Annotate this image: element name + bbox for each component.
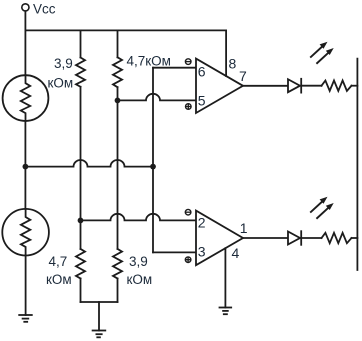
wire rail down to resistor 3,9 kOhm branch — [80, 30, 82, 57]
U1 non-inverting input marker (plus) — [186, 104, 192, 110]
resistor R7 (top right, horizontal) — [322, 81, 352, 91]
wire R1 bottom to node A junction — [24, 121, 26, 167]
wire node A to photoresistor R2 — [24, 167, 26, 209]
LED D1 — [288, 79, 301, 93]
wire node A bus to op-amp U1 (with hops over branches) — [25, 160, 153, 167]
op-amp U1 — [196, 59, 243, 113]
wire ground bus stub down — [98, 302, 100, 331]
wire R5 bottom to ground bus — [80, 279, 82, 303]
ground (below U2 pin 4) — [220, 308, 232, 315]
wire node B bus to op-amp U2 pin 2 (with hops) — [81, 214, 197, 221]
svg-text:6: 6 — [198, 63, 206, 79]
right vertical bus wire — [356, 59, 358, 270]
wire vertical net to op-amp U2 pin 3 — [153, 251, 196, 253]
wire vertical net pin6/pin3 — [152, 68, 154, 253]
photoresistor R2 — [2, 209, 49, 256]
wire node B to resistor R5 — [80, 220, 82, 249]
wire U1 output pin 7 to LED D1 — [243, 85, 288, 87]
wire R4 bottom to node C junction — [117, 87, 119, 100]
resistor R5 4,7 kOhm (bottom left) — [76, 249, 85, 279]
wire top supply rail — [25, 29, 226, 31]
svg-text:1: 1 — [240, 220, 248, 236]
wire R2 bottom to ground — [25, 256, 27, 316]
svg-text:кОм: кОм — [127, 272, 153, 287]
svg-text:Vcc: Vcc — [33, 1, 56, 16]
wire LED D1 to resistor R7 — [301, 85, 321, 87]
node B junction dot — [78, 218, 84, 224]
LED D1 emission arrows — [311, 42, 334, 63]
node A junction dot (divider midpoint) — [23, 164, 29, 170]
resistor R8 (bottom right, horizontal) — [322, 233, 352, 243]
wire R8 to right bus — [352, 237, 358, 239]
wire rail down to resistor 4,7 kOhm branch — [117, 30, 119, 57]
op-amp U2 — [196, 211, 243, 266]
resistor R4 4,7 kOhm (top middle) — [113, 57, 122, 87]
node D junction dot (bus meets vertical to pin 6) — [150, 164, 156, 170]
svg-text:3: 3 — [198, 243, 206, 259]
svg-text:3,9: 3,9 — [54, 56, 73, 71]
wire Vcc terminal to top rail — [24, 11, 26, 30]
terminal Vcc — [22, 4, 29, 11]
resistor R3 3,9 kOhm (top left) — [76, 58, 85, 87]
svg-text:4,7кОм: 4,7кОм — [127, 54, 171, 69]
LED D2 emission arrows — [311, 197, 334, 218]
node C junction dot — [115, 98, 121, 104]
wire R7 to right bus — [352, 85, 358, 87]
photoresistor R1 — [3, 75, 49, 121]
wire U2 pin 4 to ground — [224, 248, 226, 307]
wire node C down to resistor R6 — [117, 100, 119, 249]
svg-text:5: 5 — [198, 93, 206, 109]
U2 inverting input marker (minus) — [185, 209, 191, 215]
svg-text:7: 7 — [239, 68, 247, 84]
svg-text:4,7: 4,7 — [49, 254, 68, 269]
svg-text:кОм: кОм — [46, 272, 72, 287]
U2 non-inverting input marker (plus) — [185, 257, 191, 263]
resistor R6 3,9 kOhm (bottom middle) — [113, 249, 122, 279]
wire rail down to photoresistor R1 — [24, 30, 26, 75]
svg-text:4: 4 — [232, 245, 240, 261]
svg-text:2: 2 — [198, 214, 206, 230]
wire R6 bottom to ground bus — [117, 279, 119, 303]
wire Vcc rail to U1 pin 8 — [225, 30, 227, 76]
svg-text:кОм: кОм — [48, 76, 74, 91]
LED D2 — [288, 231, 301, 245]
wire bottom ground bus — [81, 301, 118, 303]
svg-text:3,9: 3,9 — [129, 254, 148, 269]
wire node C to op-amp U1 pin 5 (hop over vertical) — [118, 94, 197, 101]
ground (left, below R2) — [19, 315, 32, 322]
wire to op-amp U1 pin 6 — [153, 67, 196, 69]
wire R3 bottom to node B junction — [80, 87, 82, 221]
wire U2 output pin 1 to LED D2 — [243, 237, 288, 239]
wire LED D2 to resistor R8 — [301, 237, 321, 239]
ground (middle, below resistors) — [93, 331, 106, 338]
svg-text:8: 8 — [229, 55, 237, 71]
U1 inverting input marker (minus) — [185, 59, 191, 65]
